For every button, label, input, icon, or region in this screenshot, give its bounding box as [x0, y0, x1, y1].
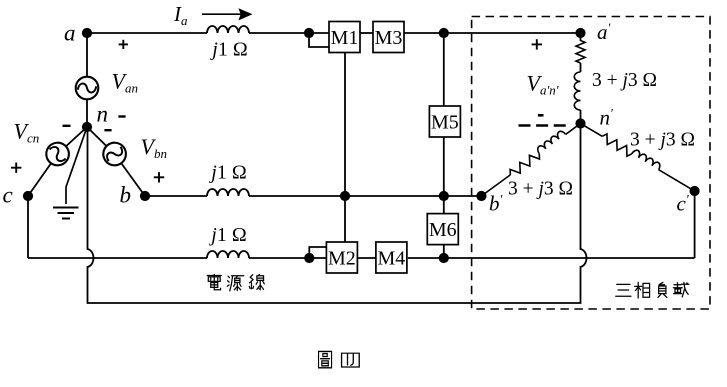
svg-text:M3: M3 [375, 27, 403, 49]
svg-text:3 + j3 Ω: 3 + j3 Ω [508, 179, 573, 200]
svg-text:j1 Ω: j1 Ω [208, 224, 246, 246]
svg-text:b: b [120, 183, 132, 208]
svg-text:c: c [3, 183, 13, 208]
svg-text:3 + j3 Ω: 3 + j3 Ω [592, 70, 657, 91]
svg-text:n: n [97, 102, 109, 127]
svg-text:j1 Ω: j1 Ω [209, 39, 247, 61]
svg-text:M2: M2 [328, 248, 356, 270]
svg-text:3 + j3 Ω: 3 + j3 Ω [630, 130, 695, 151]
svg-text:M1: M1 [331, 27, 359, 49]
svg-text:M6: M6 [429, 219, 457, 241]
svg-text:M4: M4 [378, 248, 406, 270]
svg-text:j1 Ω: j1 Ω [208, 162, 246, 184]
svg-text:M5: M5 [431, 112, 459, 134]
svg-text:a: a [64, 21, 76, 46]
